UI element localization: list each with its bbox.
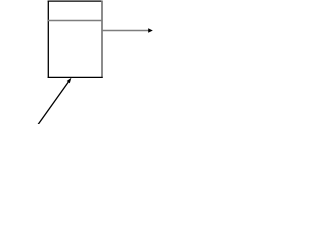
object box top edge: [48, 0, 103, 2]
arrow diagonal head: [67, 78, 72, 84]
object box bottom edge: [48, 76, 103, 78]
divider line: [48, 20, 102, 22]
arrow right shaft: [102, 30, 149, 32]
arrow diagonal shaft: [37, 81, 69, 126]
background: [0, 0, 154, 124]
arrow right head: [148, 28, 153, 33]
object box left edge: [47, 1, 49, 79]
object box right edge: [101, 1, 103, 78]
